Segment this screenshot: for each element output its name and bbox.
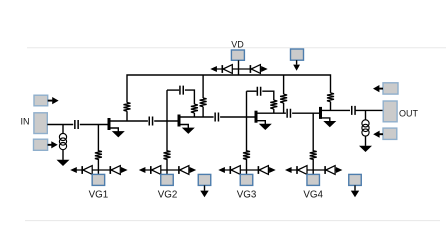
svg-text:VG1: VG1 (89, 189, 109, 200)
wire inductor to ground (365, 136, 367, 146)
wire feedback cap right to resistor (Q3) (262, 91, 274, 100)
pad VG4 (307, 174, 320, 185)
ground (input inductor) (58, 160, 69, 165)
pad VD (231, 50, 244, 60)
svg-text:VG3: VG3 (237, 189, 257, 200)
pad VG3 (240, 174, 253, 185)
capacitor C5 (352, 106, 355, 115)
pad VG1 (92, 174, 105, 185)
wire shunt to output inductor (365, 110, 367, 119)
wire C4 to Q4 gate (292, 112, 319, 114)
capacitor C1 (75, 120, 78, 129)
resistor R-FB3 (270, 100, 277, 109)
wire VG1 bias line lower (97, 159, 99, 170)
wire feedback cap right to resistor (Q2) (185, 90, 195, 104)
wire bus to R3 (283, 75, 285, 94)
connector arrow (mid-right, pointing left) (379, 133, 383, 135)
transistor Q1 (108, 118, 148, 132)
wire VG2 bias line lower (166, 159, 168, 170)
wire VG2 node to pad (166, 170, 168, 174)
transistor Q4 (319, 107, 350, 122)
connector arrow (top-right, pointing left) (379, 88, 383, 90)
svg-text:VG2: VG2 (158, 189, 178, 200)
back-to-back limiter diodes at VG2 (139, 166, 196, 175)
transistor Q2 (178, 115, 214, 129)
capacitor C-FB2 (180, 86, 183, 95)
resistor R-VG1 (95, 151, 102, 160)
transistor Q3 (255, 111, 286, 125)
svg-text:IN: IN (21, 116, 30, 126)
port IN box (34, 113, 47, 134)
wire VG4 bias line lower (312, 159, 314, 170)
capacitor C4 (287, 109, 290, 118)
inductor L1 (input shunt) (59, 133, 66, 149)
wire bus to R2 (202, 75, 204, 98)
wire R-FB2 to drain (193, 113, 195, 117)
wire VD pad to diode node (238, 60, 240, 69)
wire VD node to bus (238, 69, 240, 75)
wire VG1 bias line upper (97, 125, 99, 152)
wire VG3 bias line lower (246, 159, 248, 170)
svg-text:VD: VD (231, 40, 244, 50)
resistor R-FB2 (191, 104, 198, 113)
wire C1 to Q1 gate (80, 124, 108, 126)
wire R4 to drain (330, 102, 332, 111)
wire C2 to Q2 gate (154, 120, 177, 122)
connector arrow (top-left, pointing right) (48, 100, 53, 102)
top drain bus wire (127, 75, 331, 103)
wire VG3 / feedback riser (246, 91, 248, 151)
wire VG3 node to pad (246, 170, 248, 174)
ground (output inductor) (360, 146, 371, 151)
wire VG1 node to pad (97, 170, 99, 174)
bias feed box mid-right (383, 128, 397, 139)
port OUT box (383, 101, 397, 122)
resistor R-VG4 (310, 151, 317, 160)
wire R1 to drain line (126, 111, 128, 121)
bias feed box lower-left (34, 139, 48, 150)
connector arrow (lower-left, pointing right) (48, 144, 52, 146)
capacitor C2 (149, 117, 152, 126)
wire feedback cap left (Q2) (167, 89, 179, 91)
wire VG2 / feedback riser (166, 90, 168, 151)
back-to-back limiter diodes at VG3 (218, 166, 275, 175)
capacitor C3 (215, 113, 218, 122)
wire C3 to Q3 gate (220, 116, 254, 118)
wire VG4 node to pad (312, 170, 314, 174)
wire R3 to drain (283, 103, 285, 113)
grounded pad (between VG2 and VG3) (198, 174, 211, 185)
wire shunt to input inductor (62, 125, 64, 134)
back-to-back limiter diodes at VG1 (70, 166, 127, 175)
pad VG2 (161, 174, 174, 185)
wire C5 to OUT (355, 109, 383, 111)
bypass pad (top, on bus) (291, 49, 304, 60)
wire R2 to drain (202, 107, 204, 117)
resistor R2 (Q2 drain load) (200, 98, 207, 107)
resistor R4 (Q4 drain load) (327, 93, 334, 102)
grounded pad (right of VG4) (349, 174, 362, 185)
connector arrow (bypass pad to bus) (296, 60, 298, 64)
resistor R-VG2 (164, 151, 171, 160)
back-to-back limiter diodes at VG4 (285, 166, 342, 175)
wire IN to C1 (47, 124, 73, 126)
capacitor C-FB3 (257, 87, 260, 96)
ground (Q2 source) (183, 128, 194, 133)
bias feed box top-left (34, 95, 48, 106)
resistor R1 (Q1 drain load) (124, 102, 131, 111)
bias feed box top-right (383, 83, 398, 94)
resistor R3 (Q3 drain load) (280, 94, 287, 103)
wire inductor to ground (62, 150, 64, 160)
wire feedback cap left (Q3) (247, 90, 257, 92)
ground (Q4 source) (324, 121, 335, 126)
resistor R-VG3 (243, 151, 250, 160)
wire R-FB3 to drain (273, 109, 275, 113)
ground (Q1 source) (113, 132, 124, 137)
inductor L2 (output shunt) (362, 120, 369, 136)
svg-text:OUT: OUT (399, 108, 419, 118)
ground (Q3 source) (260, 124, 271, 129)
svg-text:VG4: VG4 (303, 189, 323, 200)
back-to-back limiter diodes at VD (210, 65, 267, 74)
wire VG4 bias line upper (312, 113, 314, 151)
